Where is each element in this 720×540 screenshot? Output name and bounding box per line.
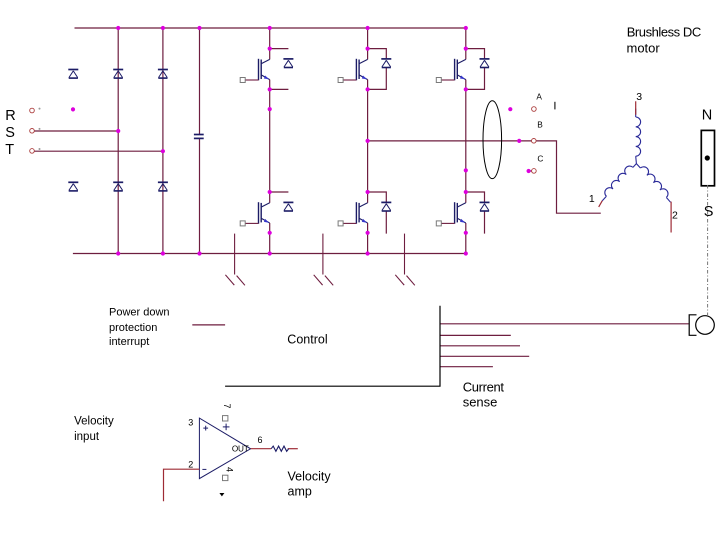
svg-text:S: S [5, 125, 15, 141]
svg-text:N: N [702, 107, 712, 123]
svg-text:amp: amp [288, 485, 312, 499]
svg-text:Current: Current [463, 380, 505, 395]
svg-text:R: R [5, 108, 15, 124]
svg-text:3: 3 [188, 418, 193, 428]
svg-text:3: 3 [636, 91, 642, 103]
svg-text:Power down: Power down [109, 307, 170, 319]
svg-text:Brushless DC: Brushless DC [627, 24, 701, 39]
svg-text:sense: sense [463, 394, 498, 409]
svg-text:T: T [5, 142, 14, 158]
svg-text:1: 1 [589, 193, 595, 205]
svg-text:7: 7 [222, 404, 232, 409]
svg-text:B: B [537, 120, 543, 130]
svg-text:interrupt: interrupt [109, 336, 149, 348]
svg-text:C: C [537, 153, 543, 163]
svg-text:2: 2 [188, 460, 193, 470]
svg-text:OUT: OUT [232, 445, 249, 454]
svg-text:Control: Control [287, 333, 327, 347]
svg-text:4: 4 [225, 467, 235, 472]
svg-text:input: input [74, 431, 100, 443]
svg-text:2: 2 [672, 210, 678, 222]
svg-text:A: A [536, 92, 542, 102]
svg-text:protection: protection [109, 322, 157, 334]
svg-text:Velocity: Velocity [74, 415, 114, 427]
svg-text:Velocity: Velocity [288, 470, 332, 484]
svg-text:S: S [704, 204, 714, 220]
svg-text:6: 6 [258, 435, 263, 445]
svg-text:motor: motor [627, 41, 661, 56]
